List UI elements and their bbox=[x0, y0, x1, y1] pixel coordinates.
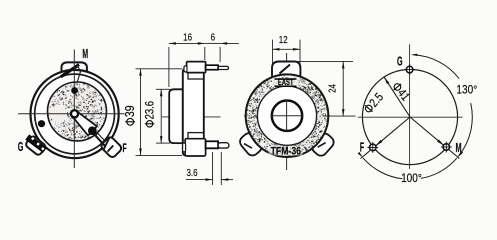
front view: top mounting tab bbox=[62, 62, 87, 74]
svg-text:23.6: 23.6 bbox=[143, 101, 156, 119]
hole pattern: radial leader dia 41 bbox=[384, 77, 410, 117]
dimension 24 bbox=[294, 61, 356, 116]
side view: centerline bbox=[162, 116, 221, 118]
side view: top terminal pin bbox=[184, 62, 229, 79]
front view: adjustment lever bbox=[71, 110, 106, 146]
front view: stippled diaphragm disc bbox=[48, 82, 107, 141]
back view: lower-right mounting tab bbox=[309, 131, 336, 158]
front view: mounting tab F bbox=[100, 136, 123, 159]
dimension dia 23.6 bbox=[143, 89, 170, 143]
svg-text:G: G bbox=[18, 140, 24, 155]
front view: terminal dot G bbox=[38, 120, 45, 127]
hole G bbox=[406, 66, 413, 73]
dimension 3.6 bbox=[186, 152, 233, 185]
back view: centerlines bbox=[286, 53, 288, 170]
svg-text:100°: 100° bbox=[401, 172, 422, 185]
dimension 12 bbox=[273, 34, 301, 65]
svg-text:3.6: 3.6 bbox=[186, 167, 197, 178]
svg-text:G: G bbox=[397, 54, 403, 69]
svg-text:M: M bbox=[455, 141, 461, 156]
front view: mounting tab G bbox=[25, 135, 47, 156]
hole F bbox=[370, 144, 377, 151]
back view: top mounting tab bbox=[272, 62, 300, 78]
hole pattern: radial line to F bbox=[361, 117, 410, 159]
front view: centerlines bbox=[18, 50, 125, 169]
label dia 2.5 bbox=[362, 91, 386, 116]
back view: tab slot marks bbox=[244, 144, 252, 149]
side view: bottom terminal pin bbox=[183, 133, 229, 156]
svg-text:6: 6 bbox=[211, 31, 215, 42]
hole M bbox=[443, 144, 450, 151]
angle dimension 130 deg bbox=[411, 54, 477, 157]
svg-text:12: 12 bbox=[279, 34, 288, 45]
hole pattern: centerlines bbox=[409, 44, 411, 169]
svg-text:F: F bbox=[122, 142, 126, 155]
svg-text:16: 16 bbox=[183, 31, 192, 42]
svg-text:24: 24 bbox=[326, 84, 337, 93]
back view: stippled body disc bbox=[246, 74, 329, 157]
svg-text:M: M bbox=[82, 47, 88, 62]
side view: mounting flange bbox=[183, 69, 204, 156]
dimension 16 bbox=[169, 31, 205, 87]
svg-text:F: F bbox=[360, 140, 365, 155]
back view: TFM-36 model label bbox=[269, 146, 303, 158]
back view: lower-left mounting tab bbox=[238, 131, 264, 158]
front view: outer case ring bbox=[31, 70, 119, 158]
dimension dia 39 bbox=[123, 69, 182, 156]
label dia 4.1 bbox=[390, 81, 412, 104]
hole pattern: radial line to M bbox=[410, 117, 459, 159]
svg-text:TFM-36: TFM-36 bbox=[271, 146, 302, 158]
side view: case back bbox=[169, 89, 183, 143]
svg-text:39: 39 bbox=[123, 105, 137, 117]
back view: EAST logo bbox=[273, 78, 299, 88]
hole pattern: bolt circle bbox=[362, 69, 457, 164]
front view: terminal dot M bbox=[71, 87, 78, 94]
dimension 6 bbox=[205, 31, 239, 62]
front view: top tab screw slot bbox=[61, 65, 79, 77]
svg-text:130°: 130° bbox=[456, 84, 477, 97]
front view: inner case ring bbox=[35, 74, 115, 154]
svg-text:EAST: EAST bbox=[278, 79, 294, 87]
angle dimension 100 deg bbox=[358, 152, 463, 185]
